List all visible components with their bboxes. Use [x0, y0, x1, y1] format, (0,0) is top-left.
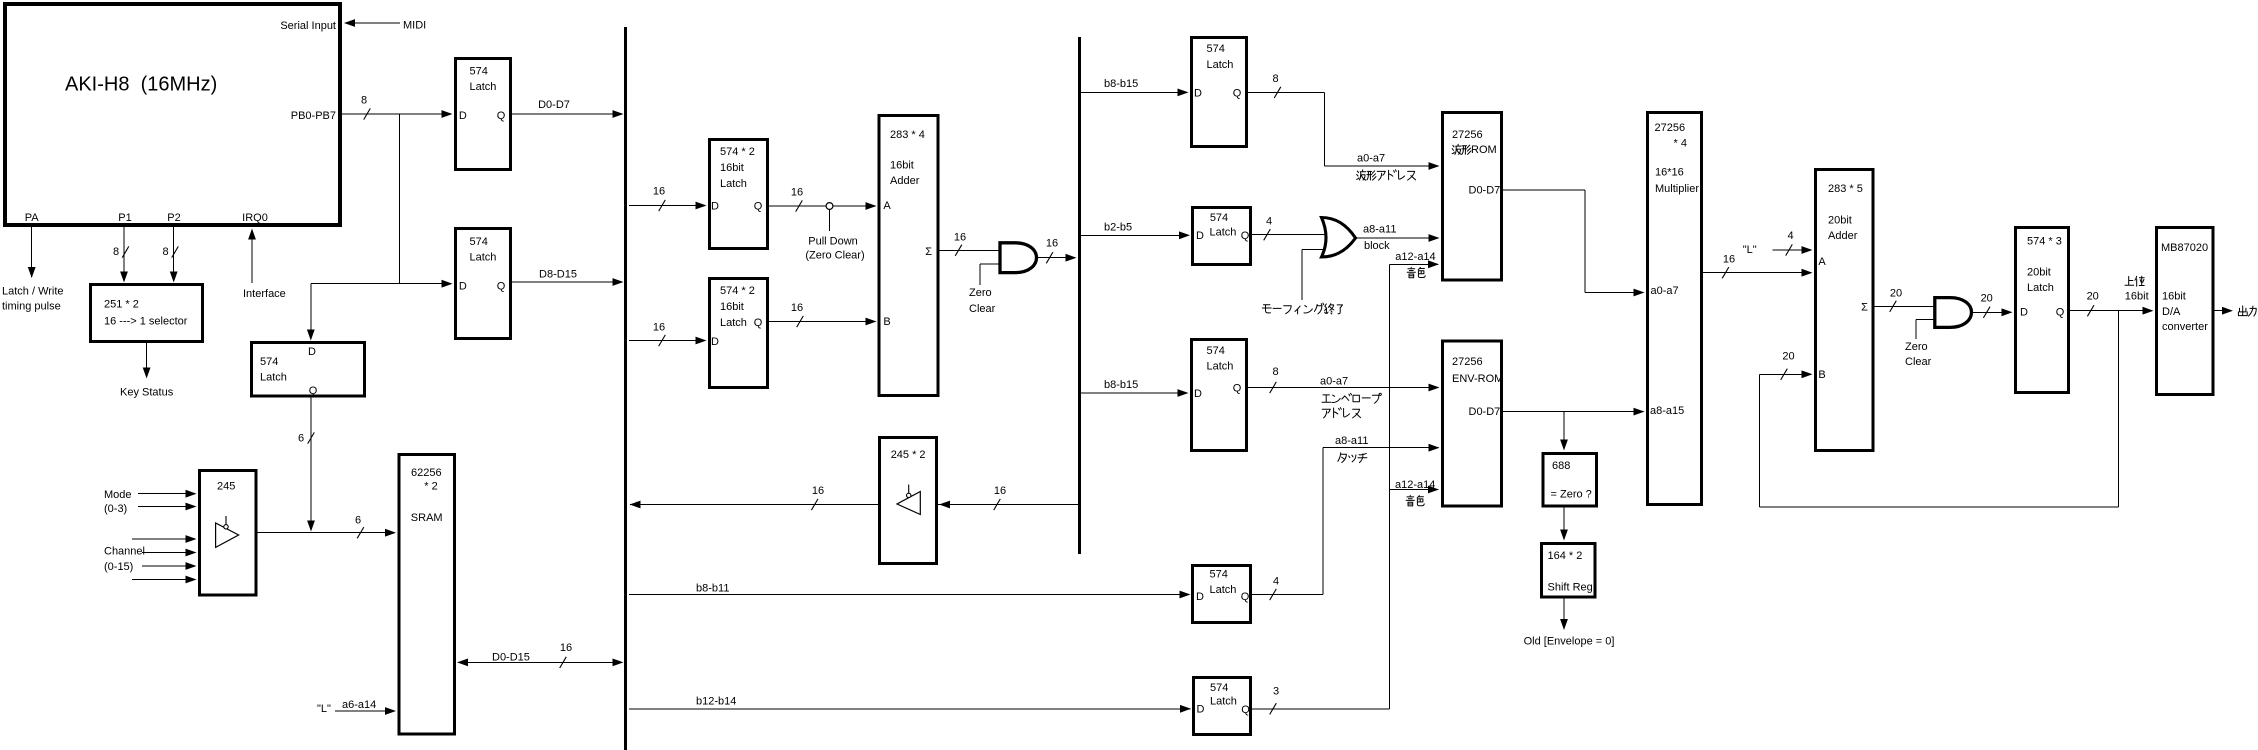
multiplier U19 27256*4 16*16 — [1648, 113, 1702, 505]
latch U3 574 (D8-D15) — [456, 229, 511, 339]
svg-text:Latch: Latch — [1210, 226, 1237, 238]
adder U22 283*5 20bit — [1816, 170, 1874, 451]
wire key status output — [120, 343, 174, 399]
label timbre (kanji) lower — [1406, 495, 1424, 506]
selector U4 251*2 16->1 — [91, 285, 203, 342]
svg-text:283 * 5: 283 * 5 — [1828, 183, 1863, 195]
svg-text:"L": "L" — [1743, 244, 1757, 256]
wire PB0-PB7 bus (8) to latch U2, junction at x=399 — [342, 94, 453, 283]
svg-text:251 * 2: 251 * 2 — [104, 298, 139, 310]
wire to latch U3 D input — [311, 280, 453, 288]
wire 245*2 to data bus (16) — [630, 485, 878, 510]
wire b2-b5 to latch U12 — [1081, 222, 1190, 240]
latch U11 574 (wave address) — [1192, 38, 1247, 147]
svg-text:16: 16 — [791, 302, 803, 314]
latch U15 574 (timbre) — [1194, 678, 1251, 735]
svg-text:Serial Input: Serial Input — [280, 20, 336, 32]
wire P2 (8) to selector — [162, 227, 178, 283]
latch U12 574 (block) — [1193, 208, 1251, 265]
svg-text:ROM: ROM — [1471, 144, 1497, 156]
zero clear 1 input — [969, 264, 1000, 315]
latch U2 574 (D0-D7) — [456, 59, 511, 170]
svg-text:574: 574 — [1210, 568, 1228, 580]
wire a8-a11 touch to ENV ROM — [1323, 435, 1440, 595]
svg-text:16bit: 16bit — [720, 162, 744, 174]
wire a12-a14 to wave ROM — [1389, 251, 1439, 268]
svg-text:D: D — [1197, 703, 1205, 715]
svg-text:Latch: Latch — [1207, 59, 1234, 71]
svg-text:Adder: Adder — [890, 175, 920, 187]
svg-text:(0-15): (0-15) — [104, 561, 133, 573]
svg-text:D: D — [1196, 591, 1204, 603]
svg-text:D0-D7: D0-D7 — [1469, 184, 1501, 196]
svg-text:27256: 27256 — [1452, 129, 1483, 141]
svg-text:245: 245 — [217, 480, 235, 492]
svg-text:timing pulse: timing pulse — [2, 301, 61, 313]
svg-text:Latch: Latch — [470, 81, 497, 93]
svg-text:574: 574 — [1210, 682, 1228, 694]
wire gate G1 to phase bus (16) — [1037, 237, 1077, 263]
svg-text:20bit: 20bit — [1828, 214, 1852, 226]
svg-text:Σ: Σ — [925, 246, 932, 258]
svg-text:SRAM: SRAM — [411, 512, 443, 524]
svg-text:a8-a11: a8-a11 — [1363, 224, 1396, 236]
svg-text:converter: converter — [2162, 321, 2208, 333]
svg-text:245 * 2: 245 * 2 — [891, 449, 926, 461]
svg-text:* 4: * 4 — [1674, 138, 1687, 150]
wire "L" a6-a14 tie — [317, 699, 396, 715]
svg-text:Zero: Zero — [1905, 341, 1928, 353]
svg-text:B: B — [1818, 369, 1825, 381]
svg-text:20: 20 — [1981, 293, 1993, 305]
svg-text:a8-a11: a8-a11 — [1335, 435, 1368, 447]
svg-text:16: 16 — [653, 186, 665, 198]
svg-text:a6-a14: a6-a14 — [342, 699, 376, 711]
svg-text:8: 8 — [361, 94, 367, 106]
wire adder2 sum (20) to AND gate — [1875, 288, 1935, 312]
svg-text:20: 20 — [1782, 350, 1794, 362]
svg-text:P1: P1 — [118, 212, 131, 224]
wire to latch U5 D input — [307, 284, 315, 341]
wire PA latch/write timing pulse — [28, 227, 36, 278]
pull down (zero clear) node on A bus — [805, 203, 864, 262]
svg-text:4: 4 — [1266, 216, 1272, 228]
latch U8 574*2 16bit — [710, 140, 768, 249]
DAC U24 MB87020 — [2157, 228, 2214, 395]
svg-text:4: 4 — [1788, 230, 1794, 242]
buffer U16 245*2 (readback) — [879, 438, 936, 564]
label wave address (katakana) — [1357, 170, 1416, 180]
svg-text:IRQ0: IRQ0 — [242, 212, 268, 224]
svg-text:block: block — [1364, 240, 1390, 252]
svg-text:62256: 62256 — [411, 467, 442, 479]
svg-text:PB0-PB7: PB0-PB7 — [291, 110, 336, 122]
wire OR to wave ROM a8-a11 block — [1356, 224, 1440, 253]
svg-text:283 * 4: 283 * 4 — [890, 129, 925, 141]
label Channel (0-15) — [104, 545, 145, 573]
svg-text:a8-a15: a8-a15 — [1650, 405, 1684, 417]
svg-text:Q: Q — [1241, 591, 1250, 603]
wire phase bus to 245*2 buffer (16) — [938, 485, 1078, 510]
svg-text:D0-D7: D0-D7 — [538, 99, 570, 111]
svg-text:a0-a7: a0-a7 — [1357, 153, 1385, 165]
wire 245 to SRAM address (6) — [258, 514, 397, 538]
svg-text:Clear: Clear — [969, 303, 996, 315]
wire gate to latch U23 (20) — [1972, 293, 2013, 318]
wire P1 (8) to selector — [113, 227, 129, 283]
svg-text:574: 574 — [470, 236, 488, 248]
svg-text:= Zero ?: = Zero ? — [1551, 488, 1592, 500]
wire envelope to zero comparator — [1560, 412, 1568, 451]
svg-text:AKI-H8 (16MHz): AKI-H8 (16MHz) — [65, 73, 217, 95]
svg-text:8: 8 — [1272, 73, 1278, 85]
svg-text:Q: Q — [2056, 306, 2065, 318]
svg-text:16bit: 16bit — [890, 159, 914, 171]
svg-text:D: D — [459, 280, 467, 292]
adder U10 283*4 16bit — [879, 116, 938, 396]
svg-text:ENV-ROM: ENV-ROM — [1452, 373, 1503, 385]
latch U23 574*3 20bit — [2016, 228, 2069, 393]
svg-text:16 ---> 1 selector: 16 ---> 1 selector — [104, 316, 188, 328]
svg-text:Q: Q — [1233, 87, 1242, 99]
svg-text:16: 16 — [560, 642, 572, 654]
latch U14 574 (touch) — [1193, 566, 1251, 623]
label U17 D0-D7 — [1469, 184, 1501, 196]
wire U12 Q (4) to OR gate — [1252, 216, 1330, 241]
svg-text:D: D — [1194, 87, 1202, 99]
svg-text:a0-a7: a0-a7 — [1320, 375, 1348, 387]
svg-text:3: 3 — [1273, 685, 1279, 697]
wire old envelope flag output — [1524, 599, 1615, 648]
wire bus to 16bit latch U9 (16) — [629, 321, 707, 346]
svg-text:16: 16 — [812, 485, 824, 497]
wire U13 Q (8) a0-a7 envelope address to ENV ROM — [1248, 366, 1440, 393]
svg-text:b12-b14: b12-b14 — [696, 696, 736, 708]
svg-text:Latch / Write: Latch / Write — [2, 286, 64, 298]
svg-text:Clear: Clear — [1905, 356, 1932, 368]
label morphing end (katakana) — [1262, 303, 1342, 314]
buffer U6 245 — [200, 471, 257, 596]
svg-text:Q: Q — [497, 110, 506, 122]
svg-text:Zero: Zero — [969, 287, 992, 299]
svg-text:b2-b5: b2-b5 — [1104, 222, 1132, 234]
label upper (kanji) — [2125, 276, 2144, 286]
label Mode (0-3) — [104, 489, 132, 515]
svg-text:Latch: Latch — [1207, 360, 1234, 372]
wire a12-a14 to ENV ROM — [1389, 479, 1439, 494]
MCU U1 AKI-H8 (16MHz) — [5, 4, 340, 225]
svg-text:Q: Q — [1233, 382, 1242, 394]
wire b12-b14 to latch U15 — [629, 696, 1191, 713]
svg-text:574: 574 — [1207, 43, 1225, 55]
wire multiplier output (16) to adder A — [1703, 254, 1813, 279]
svg-text:Latch: Latch — [720, 317, 747, 329]
svg-text:MIDI: MIDI — [403, 19, 426, 31]
zero clear 2 input — [1905, 319, 1935, 368]
wire channel inputs — [132, 535, 197, 583]
svg-text:(Zero Clear): (Zero Clear) — [805, 250, 864, 262]
svg-text:6: 6 — [298, 432, 304, 444]
wire "L" tie (4) to adder A high bits — [1743, 230, 1813, 256]
svg-text:574: 574 — [470, 65, 488, 77]
svg-text:574: 574 — [1210, 212, 1228, 224]
svg-text:Pull Down: Pull Down — [808, 235, 858, 247]
wire U11 Q (8) a0-a7 wave address to wave ROM — [1248, 73, 1440, 170]
label wave (kanji) in ROM — [1452, 144, 1471, 154]
svg-text:D: D — [1194, 388, 1202, 400]
svg-text:Q: Q — [1241, 230, 1250, 242]
svg-text:b8-b15: b8-b15 — [1104, 379, 1138, 391]
svg-text:D: D — [459, 110, 467, 122]
wire U8 Q to adder A (16) with pull down node — [769, 187, 877, 212]
svg-text:16: 16 — [653, 321, 665, 333]
latch U5 574 (address hold) — [252, 343, 365, 398]
svg-text:Q: Q — [497, 280, 506, 292]
svg-text:Latch: Latch — [470, 251, 497, 263]
wire DAC analog output — [2215, 307, 2234, 315]
svg-text:574: 574 — [1207, 345, 1225, 357]
OR gate G2 — [1322, 218, 1356, 258]
label envelope address (katakana) — [1322, 393, 1381, 418]
latch U13 574 (envelope address) — [1192, 340, 1247, 451]
svg-text:574 * 2: 574 * 2 — [720, 285, 755, 297]
wire feedback (20) to adder B — [1760, 311, 2119, 507]
svg-text:8: 8 — [113, 246, 119, 258]
wire D0-D7 into data bus — [512, 99, 624, 118]
svg-text:D: D — [711, 336, 719, 348]
svg-text:Key Status: Key Status — [120, 387, 174, 399]
svg-text:a12-a14: a12-a14 — [1395, 251, 1435, 263]
svg-text:16bit: 16bit — [720, 301, 744, 313]
svg-text:Latch: Latch — [260, 371, 287, 383]
svg-text:16*16: 16*16 — [1655, 167, 1684, 179]
svg-text:PA: PA — [25, 212, 40, 224]
AND gate G3 zero clear — [1935, 298, 1972, 328]
svg-text:D8-D15: D8-D15 — [539, 268, 577, 280]
svg-text:D0-D7: D0-D7 — [1469, 406, 1501, 418]
svg-text:Multiplier: Multiplier — [1655, 183, 1699, 195]
wire D8-D15 into data bus — [512, 268, 624, 286]
svg-text:P2: P2 — [167, 212, 180, 224]
wire U9 Q to adder B (16) — [769, 302, 877, 327]
svg-text:D: D — [2020, 306, 2028, 318]
svg-text:Q: Q — [754, 317, 763, 329]
svg-text:16: 16 — [954, 232, 966, 244]
svg-text:(0-3): (0-3) — [104, 503, 127, 515]
svg-text:Mode: Mode — [104, 489, 132, 501]
bus bar 1: D0-D15 data bus — [624, 27, 627, 750]
svg-text:b8-b15: b8-b15 — [1104, 78, 1138, 90]
wire mode inputs — [138, 490, 197, 511]
wire MIDI serial input — [344, 19, 426, 31]
wire 688 to shift register — [1560, 508, 1568, 541]
svg-text:Shift Reg.: Shift Reg. — [1548, 581, 1596, 593]
wire D0-D15 bidirectional (16) — [457, 642, 624, 668]
shift register U21 164*2 — [1542, 544, 1596, 598]
wire ENV ROM data to multiplier a8-a15 — [1503, 408, 1645, 416]
AND gate G1 zero clear — [1000, 243, 1037, 273]
svg-text:16: 16 — [1046, 237, 1058, 249]
svg-text:D0-D15: D0-D15 — [492, 652, 530, 664]
svg-text:164 * 2: 164 * 2 — [1548, 550, 1583, 562]
ROM U18 27256 ENV-ROM — [1443, 341, 1504, 506]
label output (kanji) — [2238, 306, 2256, 316]
svg-text:A: A — [1818, 256, 1826, 268]
svg-text:Adder: Adder — [1828, 230, 1858, 242]
svg-text:Q: Q — [1241, 704, 1250, 716]
svg-text:27256: 27256 — [1655, 122, 1686, 134]
wire U14 Q (4) up to touch line — [1252, 575, 1323, 600]
svg-text:8: 8 — [162, 246, 168, 258]
wire b8-b11 to latch U14 — [629, 582, 1191, 598]
svg-text:20bit: 20bit — [2027, 266, 2051, 278]
svg-text:Latch: Latch — [720, 178, 747, 190]
svg-text:D/A: D/A — [2162, 306, 2181, 318]
svg-text:20: 20 — [1890, 288, 1902, 300]
svg-text:D: D — [1196, 230, 1204, 242]
svg-text:20: 20 — [2087, 290, 2099, 302]
wire adder sum to AND gate (16) — [940, 232, 1001, 256]
wire latch Q (20) upper 16bit to DAC — [2070, 290, 2154, 316]
SRAM U7 62256*2 — [399, 455, 455, 735]
svg-text:4: 4 — [1273, 575, 1279, 587]
wire b8-b15 to latch U11 — [1081, 78, 1189, 96]
svg-text:688: 688 — [1552, 460, 1570, 472]
svg-text:8: 8 — [1272, 366, 1278, 378]
label Latch / Write timing pulse — [2, 286, 64, 313]
latch U9 574*2 16bit — [710, 279, 768, 388]
ROM U17 27256 wave ROM — [1443, 113, 1502, 281]
wire U5 Q (6) down to SRAM address line — [298, 398, 315, 532]
svg-text:"L": "L" — [317, 703, 331, 715]
label touch (katakana) — [1338, 453, 1367, 463]
svg-text:Old [Envelope = 0]: Old [Envelope = 0] — [1524, 636, 1615, 648]
svg-text:16bit: 16bit — [2125, 290, 2149, 302]
svg-text:B: B — [883, 316, 890, 328]
svg-text:574 * 2: 574 * 2 — [720, 146, 755, 158]
svg-text:MB87020: MB87020 — [2161, 242, 2208, 254]
svg-text:16: 16 — [791, 187, 803, 199]
svg-text:27256: 27256 — [1452, 356, 1483, 368]
svg-text:574 * 3: 574 * 3 — [2027, 235, 2062, 247]
wire a12-a14 timbre vertical rail — [1388, 264, 1390, 709]
svg-text:Q: Q — [754, 200, 763, 212]
svg-text:574: 574 — [260, 356, 278, 368]
svg-text:6: 6 — [355, 514, 361, 526]
svg-text:A: A — [883, 200, 891, 212]
wire U15 Q (3) up to a12-a14 rail — [1252, 685, 1389, 714]
svg-text:16: 16 — [994, 485, 1006, 497]
svg-text:Interface: Interface — [243, 288, 286, 300]
comparator U20 688 =Zero? — [1543, 454, 1597, 507]
wire morphing-end input to OR gate — [1302, 249, 1332, 300]
bus bar 2: phase accumulator bus — [1078, 37, 1081, 554]
svg-text:16bit: 16bit — [2162, 290, 2186, 302]
svg-text:Channel: Channel — [104, 545, 145, 557]
svg-text:Σ: Σ — [1861, 301, 1868, 313]
wire IRQ0 interface interrupt — [243, 229, 286, 300]
svg-text:Q: Q — [309, 385, 318, 397]
svg-text:* 2: * 2 — [424, 480, 437, 492]
svg-text:16: 16 — [1723, 254, 1735, 266]
svg-text:D: D — [711, 200, 719, 212]
wire wave ROM data to multiplier a0-a7 — [1503, 190, 1645, 296]
wire b8-b15 to latch U13 — [1081, 379, 1189, 397]
svg-text:b8-b11: b8-b11 — [696, 582, 729, 594]
wire bus to 16bit latch U8 (16) — [629, 186, 707, 212]
svg-text:D: D — [308, 346, 316, 358]
svg-text:Latch: Latch — [1210, 584, 1237, 596]
svg-text:Latch: Latch — [1210, 695, 1237, 707]
svg-text:a12-a14: a12-a14 — [1395, 479, 1435, 491]
svg-text:Latch: Latch — [2027, 282, 2054, 294]
svg-text:a0-a7: a0-a7 — [1651, 285, 1679, 297]
label timbre (kanji) upper — [1407, 267, 1425, 278]
